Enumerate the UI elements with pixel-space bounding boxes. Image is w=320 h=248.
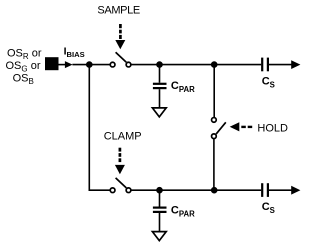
wire left branch vertical+bottom corner: [89, 65, 110, 191]
switch CLAMP: [110, 178, 131, 193]
switch HOLD: [212, 118, 226, 139]
wire bottom rail output: [269, 189, 292, 191]
wire top rail left: [72, 64, 110, 66]
svg-text:CLAMP: CLAMP: [104, 131, 142, 143]
output arrow bottom: [291, 186, 300, 195]
capacitor CS top: [262, 58, 268, 72]
control arrow CLAMP: [115, 148, 125, 175]
capacitor CPAR top: [153, 65, 167, 108]
capacitor CPAR bottom: [153, 190, 167, 231]
ground bottom: [152, 232, 166, 241]
node bottom hold branch: [211, 187, 218, 194]
control arrow HOLD: [230, 122, 253, 131]
output arrow top: [291, 60, 300, 69]
node top Cpar: [156, 61, 163, 68]
ground top: [152, 108, 166, 117]
wire pad to arrow: [59, 64, 67, 66]
control arrow SAMPLE: [115, 24, 125, 49]
node top hold branch: [211, 61, 218, 68]
switch SAMPLE: [110, 52, 131, 67]
wire top rail middle: [131, 64, 261, 66]
wire bottom rail middle: [131, 189, 261, 191]
node A junction: [86, 61, 93, 68]
svg-text:HOLD: HOLD: [257, 122, 288, 134]
wire top rail output: [269, 64, 292, 66]
node bottom Cpar: [156, 187, 163, 194]
input pad: [45, 57, 59, 70]
wire hold branch lower: [213, 139, 215, 190]
svg-text:SAMPLE: SAMPLE: [97, 5, 140, 17]
wire hold branch upper: [213, 65, 215, 118]
current arrow IBIAS: [65, 61, 73, 68]
capacitor CS bottom: [262, 183, 268, 197]
label OS inputs: [6, 48, 42, 86]
